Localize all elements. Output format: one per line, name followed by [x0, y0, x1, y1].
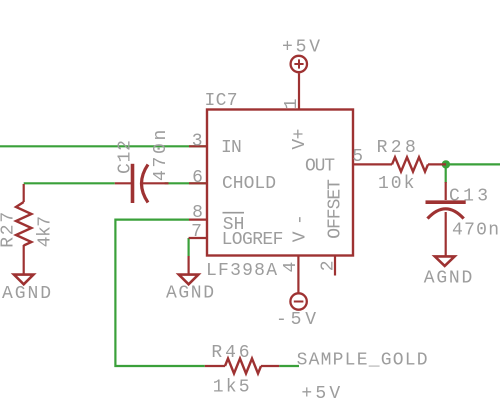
svg-text:R27: R27 — [0, 212, 19, 248]
svg-text:V-: V- — [291, 214, 311, 242]
svg-text:+5V: +5V — [282, 37, 320, 57]
svg-text:LF398A: LF398A — [206, 261, 277, 281]
svg-text:2: 2 — [319, 260, 339, 271]
svg-text:1: 1 — [282, 98, 302, 109]
svg-text:6: 6 — [192, 168, 203, 188]
svg-text:R46: R46 — [211, 343, 249, 363]
svg-text:7: 7 — [191, 222, 202, 242]
svg-text:V+: V+ — [290, 129, 310, 150]
svg-text:8: 8 — [192, 203, 203, 223]
svg-text:IC7: IC7 — [205, 91, 238, 111]
svg-text:OFFSET: OFFSET — [325, 179, 345, 239]
svg-text:SAMPLE_GOLD: SAMPLE_GOLD — [297, 350, 428, 370]
svg-text:470n: 470n — [151, 130, 171, 181]
svg-text:4k7: 4k7 — [36, 216, 56, 247]
svg-text:C12: C12 — [116, 140, 136, 174]
svg-text:470n: 470n — [452, 221, 499, 241]
svg-text:AGND: AGND — [166, 283, 214, 303]
svg-text:OUT: OUT — [305, 156, 335, 176]
svg-text:AGND: AGND — [2, 284, 51, 304]
svg-text:-5V: -5V — [276, 310, 316, 330]
svg-text:LOGREF: LOGREF — [222, 230, 284, 250]
svg-text:4: 4 — [281, 262, 301, 273]
svg-text:CHOLD: CHOLD — [222, 174, 276, 194]
svg-text:5: 5 — [352, 147, 363, 167]
svg-text:AGND: AGND — [424, 269, 473, 289]
svg-text:3: 3 — [192, 131, 203, 151]
svg-text:1k5: 1k5 — [213, 377, 250, 397]
svg-text:+5V: +5V — [301, 384, 340, 400]
svg-text:IN: IN — [221, 138, 242, 158]
svg-text:R28: R28 — [377, 138, 416, 158]
svg-text:C13: C13 — [449, 186, 488, 206]
svg-text:10k: 10k — [378, 174, 414, 194]
